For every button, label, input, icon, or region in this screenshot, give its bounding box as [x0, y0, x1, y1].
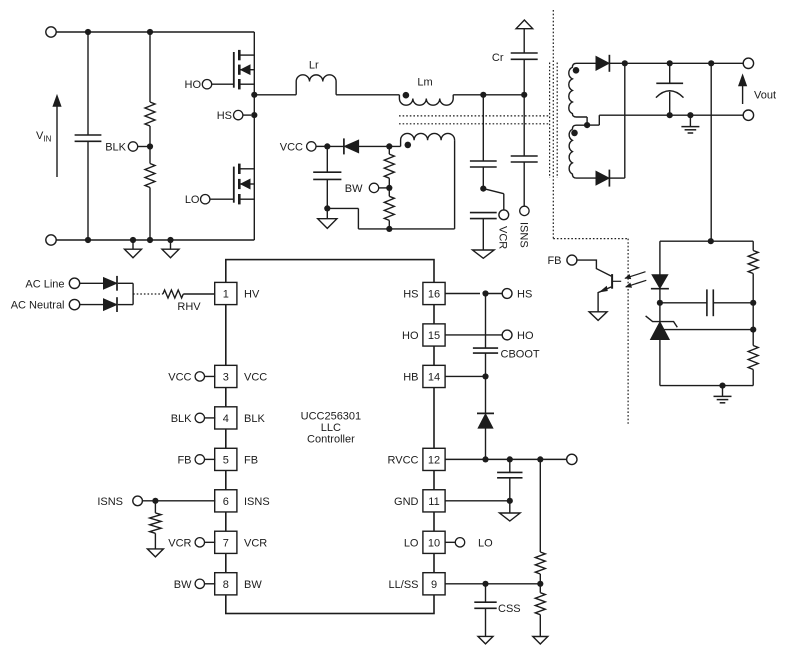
svg-text:HS: HS [403, 289, 418, 301]
svg-text:8: 8 [223, 579, 229, 591]
svg-text:3: 3 [223, 371, 229, 383]
svg-text:FB: FB [547, 255, 561, 267]
svg-text:UCC256301: UCC256301 [301, 411, 362, 423]
svg-text:BLK: BLK [171, 413, 192, 425]
svg-text:BW: BW [174, 579, 192, 591]
svg-text:12: 12 [428, 454, 440, 466]
svg-text:15: 15 [428, 330, 440, 342]
svg-text:LO: LO [478, 537, 493, 549]
svg-text:BLK: BLK [105, 142, 126, 154]
svg-text:LLC: LLC [321, 422, 341, 434]
svg-text:11: 11 [428, 496, 439, 508]
svg-text:ISNS: ISNS [97, 496, 123, 508]
svg-text:Lm: Lm [417, 77, 432, 89]
svg-text:LO: LO [185, 194, 200, 206]
svg-text:9: 9 [431, 579, 437, 591]
svg-text:Lr: Lr [309, 60, 319, 72]
svg-text:FB: FB [177, 454, 191, 466]
svg-text:ISNS: ISNS [244, 496, 270, 508]
svg-text:HS: HS [517, 289, 532, 301]
svg-text:7: 7 [223, 537, 229, 549]
svg-text:Cr: Cr [492, 52, 504, 64]
svg-text:6: 6 [223, 496, 229, 508]
svg-text:LO: LO [404, 537, 419, 549]
svg-text:BW: BW [244, 579, 262, 591]
svg-text:CBOOT: CBOOT [501, 349, 540, 361]
svg-text:Vout: Vout [754, 90, 776, 102]
svg-text:LL/SS: LL/SS [389, 579, 419, 591]
svg-text:10: 10 [428, 537, 440, 549]
svg-text:RVCC: RVCC [388, 454, 419, 466]
svg-text:4: 4 [223, 413, 229, 425]
svg-text:1: 1 [223, 289, 229, 301]
svg-text:14: 14 [428, 371, 440, 383]
svg-text:GND: GND [394, 496, 419, 508]
svg-text:16: 16 [428, 289, 440, 301]
svg-text:Controller: Controller [307, 434, 355, 446]
svg-text:BLK: BLK [244, 413, 265, 425]
svg-text:HO: HO [402, 330, 419, 342]
svg-text:VCR: VCR [497, 226, 509, 249]
svg-text:AC Neutral: AC Neutral [11, 300, 65, 312]
svg-text:RHV: RHV [177, 301, 201, 313]
svg-text:HO: HO [517, 330, 534, 342]
svg-text:VCC: VCC [244, 371, 267, 383]
svg-text:VCR: VCR [168, 537, 191, 549]
svg-text:HV: HV [244, 289, 260, 301]
svg-text:AC Line: AC Line [25, 278, 64, 290]
svg-text:HO: HO [185, 79, 202, 91]
svg-text:BW: BW [345, 183, 363, 195]
svg-text:ISNS: ISNS [517, 222, 529, 248]
svg-text:HB: HB [403, 371, 418, 383]
svg-text:VCR: VCR [244, 537, 267, 549]
svg-text:VCC: VCC [280, 142, 303, 154]
svg-text:5: 5 [223, 454, 229, 466]
svg-text:CSS: CSS [498, 603, 521, 615]
svg-text:FB: FB [244, 454, 258, 466]
svg-text:VCC: VCC [168, 371, 191, 383]
svg-text:HS: HS [217, 110, 232, 122]
